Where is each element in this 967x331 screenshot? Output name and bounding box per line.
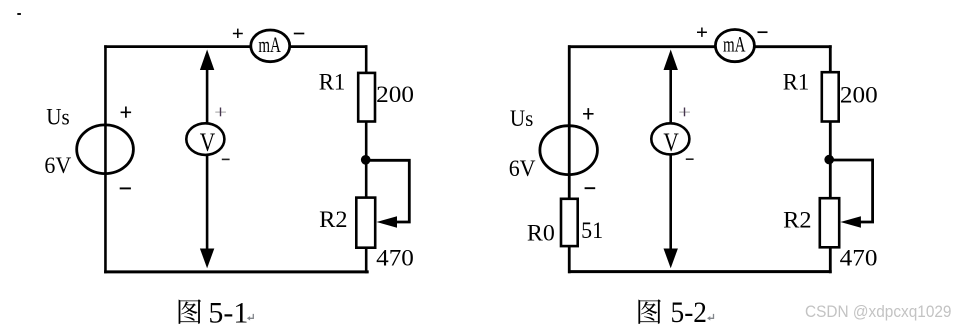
svg-text:200: 200 xyxy=(376,82,414,108)
resistor R1 (left) xyxy=(358,73,375,122)
caption: 图 character (left) xyxy=(179,299,202,324)
svg-text:R2: R2 xyxy=(783,208,811,233)
minus sign of ammeter (right) xyxy=(758,31,768,33)
svg-text:R1: R1 xyxy=(319,69,346,94)
svg-text:5-2: 5-2 xyxy=(671,296,708,329)
wire: top wire of left loop xyxy=(104,45,367,48)
svg-text:R2: R2 xyxy=(319,207,347,232)
svg-text:Us: Us xyxy=(46,105,69,130)
wire: bottom wire of left loop xyxy=(104,270,369,273)
voltmeter V (right) xyxy=(651,123,689,157)
wire: voltmeter branch arrow (right) xyxy=(664,50,678,269)
plus sign of source (right) xyxy=(583,108,594,119)
resistor R2 potentiometer (right) xyxy=(820,198,839,247)
svg-text:mA: mA xyxy=(258,32,281,57)
svg-text:R1: R1 xyxy=(783,69,810,94)
svg-text:V: V xyxy=(663,127,678,157)
svg-text:R0: R0 xyxy=(527,221,555,246)
svg-text:200: 200 xyxy=(840,82,878,108)
plus sign of ammeter (right) xyxy=(697,28,707,37)
ammeter mA (right) xyxy=(715,29,754,61)
resistor R0 (right) xyxy=(561,199,578,246)
wire: left wire of left loop xyxy=(104,45,107,273)
svg-text:Us: Us xyxy=(510,106,533,131)
voltmeter V (left) xyxy=(186,123,224,157)
svg-text:51: 51 xyxy=(581,218,603,243)
svg-text:6V: 6V xyxy=(509,156,536,181)
wiper arrowhead into R2 (right) xyxy=(840,216,861,228)
plus sign of voltmeter (left) xyxy=(215,111,226,113)
paragraph return mark (right) xyxy=(707,314,714,321)
wire: voltmeter branch arrow (left) xyxy=(200,50,214,269)
wire: top wire of right loop xyxy=(568,45,832,48)
minus sign of source (right) xyxy=(585,187,596,189)
wire: right wire of left loop (through R1/R2) xyxy=(365,45,368,273)
wire: potentiometer tap (right) xyxy=(829,160,872,222)
caption: 图 character (right) xyxy=(638,299,661,324)
minus sign of voltmeter (left) xyxy=(222,158,230,160)
wire: potentiometer tap (left) xyxy=(366,160,410,222)
resistor R1 (right) xyxy=(822,72,839,121)
svg-text:470: 470 xyxy=(376,246,414,272)
svg-text:CSDN @xdpcxq1029: CSDN @xdpcxq1029 xyxy=(805,303,952,321)
svg-text:mA: mA xyxy=(723,32,746,57)
node: junction of R1/R2/tap (left) xyxy=(361,155,371,165)
minus sign of voltmeter (right) xyxy=(686,158,694,160)
minus sign of ammeter (left) xyxy=(294,33,305,35)
list dash mark top-left xyxy=(17,13,21,15)
voltage source Us (right) xyxy=(540,126,598,175)
wiper arrowhead into R2 (left) xyxy=(377,216,398,228)
wire: left wire of right loop (through R0) xyxy=(568,45,571,273)
paragraph return mark (left) xyxy=(247,314,254,321)
minus sign of source (left) xyxy=(120,187,131,189)
wire: right wire of right loop (through R1/R2) xyxy=(829,45,832,273)
node: junction of R1/R2/tap (right) xyxy=(824,155,834,165)
plus sign of ammeter (left) xyxy=(233,29,243,38)
voltage source Us (left) xyxy=(77,125,134,174)
ammeter mA (left) xyxy=(251,30,290,62)
svg-text:470: 470 xyxy=(840,246,878,272)
svg-text:6V: 6V xyxy=(44,153,71,178)
wire: bottom wire of right loop xyxy=(568,270,832,273)
plus sign of source (left) xyxy=(121,107,132,118)
plus sign of voltmeter (right) xyxy=(679,111,690,113)
svg-text:V: V xyxy=(200,127,215,157)
resistor R2 potentiometer (left) xyxy=(356,198,375,248)
svg-text:5-1: 5-1 xyxy=(208,296,248,329)
